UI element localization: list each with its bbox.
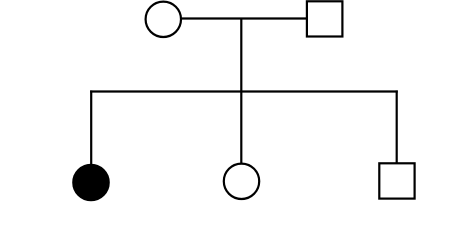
individual II-2 (unaffected female, open circle) — [224, 164, 259, 199]
wire to II-2 (middle vertical drop) — [240, 92, 242, 165]
descent line (vertical wire from mating line to sibship line) — [240, 19, 242, 92]
wire to II-1 (left vertical drop) — [90, 90, 92, 165]
mating line (wire between I-1 and I-2) — [182, 17, 307, 19]
individual II-3 (unaffected male, open square) — [379, 163, 414, 198]
individual I-1 mother (unaffected female, open circle) — [146, 2, 181, 37]
individual I-2 father (unaffected male, open square) — [307, 1, 343, 36]
wire to II-3 (right vertical drop) — [396, 90, 398, 164]
individual II-1 (affected female, filled circle) — [73, 165, 109, 201]
sibship line (horizontal wire) — [90, 90, 398, 92]
